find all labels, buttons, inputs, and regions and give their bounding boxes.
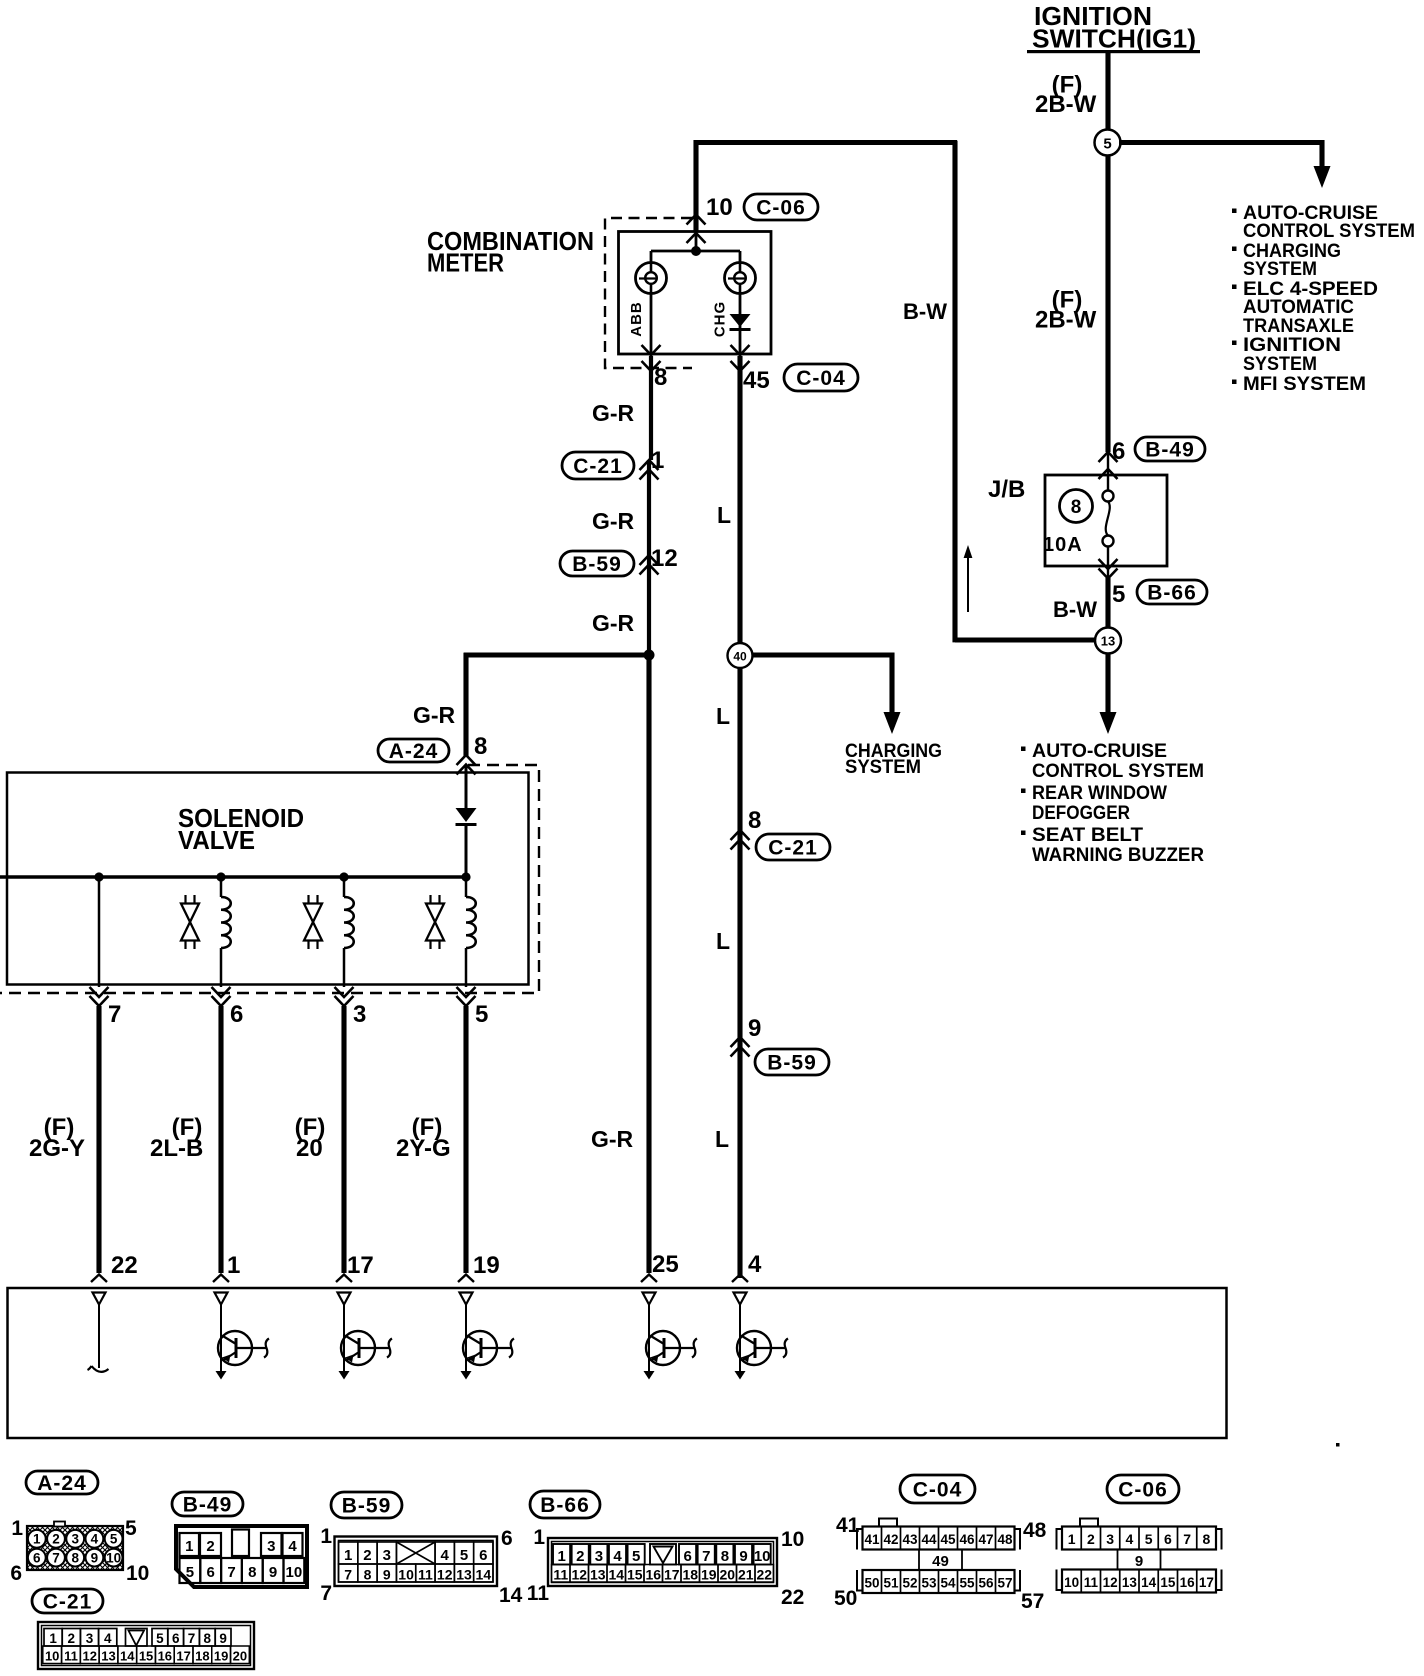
svg-text:20: 20 [233,1649,247,1664]
svg-text:50: 50 [834,1587,857,1610]
svg-text:CHG: CHG [712,301,729,337]
svg-text:C-04: C-04 [913,1478,963,1501]
svg-text:C-21: C-21 [768,836,818,859]
svg-text:G-R: G-R [592,610,635,636]
svg-text:17: 17 [176,1649,190,1664]
svg-text:2: 2 [576,1548,584,1565]
svg-text:21: 21 [738,1567,754,1583]
svg-text:C-21: C-21 [43,1590,93,1613]
svg-text:6: 6 [683,1548,691,1565]
svg-text:5: 5 [632,1548,640,1565]
svg-text:9: 9 [219,1631,227,1646]
svg-text:10: 10 [126,1562,149,1585]
svg-text:7: 7 [702,1548,710,1565]
svg-text:G-R: G-R [591,1126,634,1152]
svg-text:2: 2 [68,1631,76,1646]
svg-text:3: 3 [1106,1531,1114,1547]
svg-text:DEFOGGER: DEFOGGER [1032,803,1130,824]
svg-text:9: 9 [91,1550,99,1565]
svg-text:7: 7 [52,1550,60,1565]
svg-text:8: 8 [721,1548,729,1565]
svg-text:57: 57 [997,1576,1012,1591]
svg-text:2: 2 [206,1538,214,1555]
svg-text:SEAT BELT: SEAT BELT [1032,825,1143,846]
svg-text:11: 11 [527,1582,550,1605]
svg-text:7: 7 [188,1631,196,1646]
svg-text:53: 53 [921,1576,937,1591]
svg-text:3: 3 [595,1548,603,1565]
svg-text:L: L [715,1126,729,1152]
svg-text:4: 4 [441,1547,450,1564]
svg-text:8: 8 [248,1564,256,1581]
svg-text:VALVE: VALVE [178,825,255,855]
svg-text:ABB: ABB [628,301,645,337]
svg-text:10: 10 [1064,1575,1079,1590]
svg-text:L: L [716,928,730,954]
svg-text:46: 46 [959,1532,975,1547]
svg-text:9: 9 [269,1564,277,1581]
svg-text:11: 11 [1084,1575,1099,1590]
svg-text:B-49: B-49 [1145,438,1195,461]
svg-text:8: 8 [204,1631,212,1646]
svg-text:AUTOMATIC: AUTOMATIC [1243,297,1354,318]
svg-text:22: 22 [781,1586,804,1609]
svg-text:TRANSAXLE: TRANSAXLE [1243,316,1354,337]
svg-text:56: 56 [978,1576,994,1591]
svg-text:6: 6 [501,1527,513,1550]
svg-text:L: L [716,703,730,729]
svg-text:REAR WINDOW: REAR WINDOW [1032,783,1167,804]
svg-text:1: 1 [533,1526,545,1549]
svg-text:4: 4 [288,1538,297,1555]
svg-text:8: 8 [1202,1531,1210,1547]
svg-text:45: 45 [743,367,770,394]
svg-text:METER: METER [427,248,504,278]
svg-text:AUTO-CRUISE: AUTO-CRUISE [1032,741,1167,762]
svg-text:B-66: B-66 [540,1494,590,1517]
svg-text:2Y-G: 2Y-G [396,1135,451,1162]
svg-text:G-R: G-R [592,508,635,534]
svg-text:B-W: B-W [903,299,947,324]
svg-text:4: 4 [613,1548,622,1565]
svg-text:1: 1 [320,1525,332,1548]
svg-text:13: 13 [456,1567,472,1583]
svg-text:G-R: G-R [592,400,635,426]
svg-text:5: 5 [1103,136,1111,153]
svg-text:MFI SYSTEM: MFI SYSTEM [1243,374,1366,395]
svg-text:12: 12 [571,1567,587,1583]
svg-text:C-21: C-21 [573,455,623,478]
svg-text:5: 5 [125,1517,137,1540]
svg-text:48: 48 [997,1532,1013,1547]
svg-text:1: 1 [11,1517,23,1540]
svg-text:9: 9 [748,1015,761,1042]
svg-text:2: 2 [1087,1531,1095,1547]
svg-text:C-06: C-06 [1118,1478,1168,1501]
svg-text:5: 5 [460,1547,468,1564]
svg-text:6: 6 [230,1001,243,1028]
svg-text:L: L [717,502,731,528]
svg-text:54: 54 [940,1576,956,1591]
svg-text:9: 9 [739,1548,747,1565]
svg-text:14: 14 [608,1567,624,1583]
svg-text:SWITCH(IG1): SWITCH(IG1) [1032,24,1196,54]
svg-text:4: 4 [1125,1531,1133,1547]
svg-text:5: 5 [156,1631,164,1646]
svg-text:6: 6 [1164,1531,1172,1547]
svg-text:5: 5 [475,1001,488,1028]
svg-text:CONTROL SYSTEM: CONTROL SYSTEM [1032,761,1204,782]
svg-text:20: 20 [719,1567,735,1583]
svg-text:14: 14 [120,1649,135,1664]
svg-text:10: 10 [106,1550,121,1565]
svg-text:49: 49 [932,1553,949,1570]
svg-text:5: 5 [1112,581,1125,608]
svg-text:2: 2 [363,1547,371,1564]
svg-text:4: 4 [104,1631,112,1646]
svg-text:13: 13 [590,1567,606,1583]
svg-text:17: 17 [1199,1575,1214,1590]
svg-text:40: 40 [733,650,747,664]
svg-text:7: 7 [344,1567,352,1583]
svg-text:11: 11 [64,1649,78,1664]
svg-text:8: 8 [474,733,487,760]
svg-text:8: 8 [748,807,761,834]
svg-text:42: 42 [883,1532,898,1547]
svg-text:B-59: B-59 [767,1051,817,1074]
svg-text:10A: 10A [1043,534,1083,556]
svg-text:B-59: B-59 [572,553,622,576]
svg-text:5: 5 [186,1564,194,1581]
svg-text:18: 18 [195,1649,209,1664]
svg-text:51: 51 [883,1576,899,1591]
svg-text:19: 19 [214,1649,228,1664]
svg-text:7: 7 [108,1001,121,1028]
svg-text:2G-Y: 2G-Y [29,1135,85,1162]
svg-text:16: 16 [1180,1575,1196,1590]
svg-text:19: 19 [701,1567,717,1583]
svg-text:15: 15 [627,1567,643,1583]
svg-text:B-66: B-66 [1147,581,1197,604]
svg-text:52: 52 [902,1576,917,1591]
svg-text:SYSTEM: SYSTEM [1243,259,1317,280]
svg-text:9: 9 [383,1567,391,1583]
svg-text:13: 13 [101,1649,115,1664]
svg-text:55: 55 [959,1576,975,1591]
svg-text:43: 43 [902,1532,918,1547]
svg-text:1: 1 [185,1538,193,1555]
svg-text:7: 7 [320,1582,332,1605]
svg-text:3: 3 [71,1532,79,1547]
svg-text:B-W: B-W [1053,597,1097,622]
svg-text:1: 1 [557,1548,565,1565]
svg-text:3: 3 [267,1538,275,1555]
svg-text:SYSTEM: SYSTEM [845,757,921,778]
svg-text:2B-W: 2B-W [1035,307,1097,334]
svg-text:C-04: C-04 [796,367,846,390]
svg-text:2B-W: 2B-W [1035,91,1097,118]
svg-text:A-24: A-24 [37,1472,87,1495]
svg-text:7: 7 [1183,1531,1191,1547]
svg-text:4: 4 [91,1532,99,1547]
svg-text:13: 13 [1122,1575,1138,1590]
svg-text:WARNING BUZZER: WARNING BUZZER [1032,845,1204,866]
svg-text:11: 11 [553,1567,568,1583]
svg-text:2: 2 [52,1532,60,1547]
svg-text:8: 8 [1071,497,1082,518]
svg-text:1: 1 [344,1547,352,1564]
svg-text:48: 48 [1023,1519,1047,1542]
svg-text:11: 11 [418,1567,433,1583]
svg-text:1: 1 [227,1252,240,1279]
svg-text:15: 15 [139,1649,153,1664]
svg-text:6: 6 [10,1562,22,1585]
svg-text:2L-B: 2L-B [150,1135,203,1162]
svg-text:14: 14 [476,1567,492,1583]
svg-text:3: 3 [353,1001,366,1028]
svg-text:1: 1 [1068,1531,1076,1547]
svg-text:22: 22 [111,1252,138,1279]
svg-text:C-06: C-06 [756,196,806,219]
svg-text:12: 12 [437,1567,453,1583]
svg-text:6: 6 [172,1631,180,1646]
svg-text:44: 44 [921,1532,937,1547]
svg-text:1: 1 [651,447,664,474]
svg-text:25: 25 [652,1251,679,1278]
svg-text:6: 6 [479,1547,487,1564]
svg-text:SYSTEM: SYSTEM [1243,354,1317,375]
svg-text:10: 10 [45,1649,59,1664]
svg-text:1: 1 [33,1532,41,1547]
svg-text:57: 57 [1021,1590,1044,1613]
svg-text:13: 13 [1101,634,1115,649]
svg-text:17: 17 [347,1252,374,1279]
svg-text:45: 45 [940,1532,956,1547]
svg-text:22: 22 [756,1567,772,1583]
svg-text:10: 10 [286,1564,303,1581]
svg-text:5: 5 [1145,1531,1153,1547]
svg-text:8: 8 [364,1567,372,1583]
svg-text:9: 9 [1135,1553,1143,1570]
svg-text:6: 6 [207,1564,215,1581]
svg-text:5: 5 [110,1532,118,1547]
svg-text:IGNITION: IGNITION [1243,335,1341,356]
svg-text:10: 10 [706,194,733,221]
svg-text:8: 8 [654,364,667,391]
svg-text:7: 7 [227,1564,235,1581]
svg-text:16: 16 [158,1649,172,1664]
svg-text:10: 10 [781,1528,804,1551]
svg-text:19: 19 [473,1252,500,1279]
svg-text:18: 18 [682,1567,698,1583]
svg-text:J/B: J/B [988,476,1025,503]
svg-text:15: 15 [1160,1575,1176,1590]
svg-text:6: 6 [33,1550,41,1565]
svg-text:12: 12 [1103,1575,1118,1590]
svg-text:12: 12 [82,1649,96,1664]
svg-text:A-24: A-24 [389,740,439,763]
svg-text:CONTROL SYSTEM: CONTROL SYSTEM [1243,221,1415,242]
svg-text:47: 47 [978,1532,993,1547]
svg-text:14: 14 [1141,1575,1157,1590]
svg-text:17: 17 [664,1567,680,1583]
svg-text:20: 20 [296,1135,323,1162]
svg-text:1: 1 [49,1631,57,1646]
svg-text:16: 16 [645,1567,661,1583]
svg-text:6: 6 [1112,438,1125,465]
svg-text:41: 41 [864,1532,880,1547]
svg-text:B-59: B-59 [342,1494,392,1517]
svg-text:50: 50 [864,1576,879,1591]
svg-text:10: 10 [398,1567,414,1583]
svg-text:B-49: B-49 [183,1493,233,1516]
svg-text:4: 4 [748,1251,762,1278]
svg-text:3: 3 [383,1547,391,1564]
svg-text:12: 12 [651,545,678,572]
svg-text:3: 3 [86,1631,94,1646]
svg-text:10: 10 [754,1548,771,1565]
svg-text:8: 8 [71,1550,79,1565]
svg-text:14: 14 [499,1584,523,1607]
svg-text:G-R: G-R [413,702,456,728]
